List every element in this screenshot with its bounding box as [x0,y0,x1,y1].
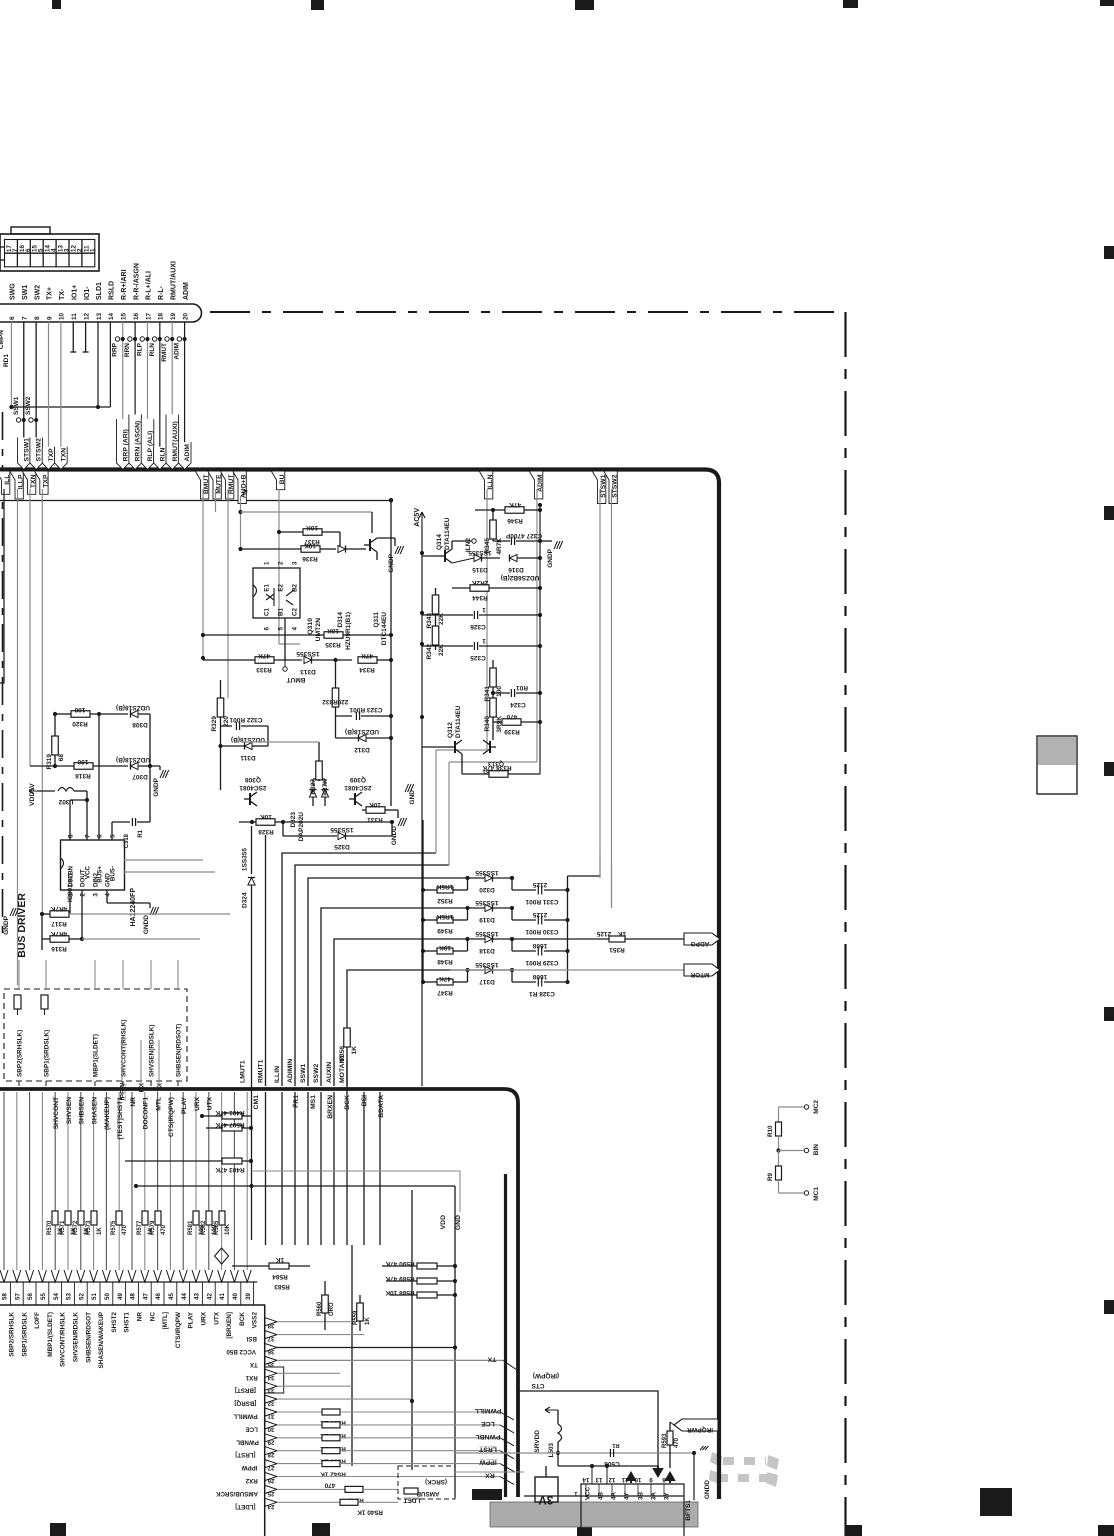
svg-text:R579: R579 [150,1220,156,1235]
svg-text:C1: C1 [264,608,271,616]
diamond on pin 41 [215,1248,229,1264]
svg-text:URX: URX [194,1096,201,1111]
svg-text:DTC144EU: DTC144EU [381,612,388,646]
svg-text:SHBSEN/RDSOT: SHBSEN/RDSOT [85,1312,92,1363]
svg-text:220: 220 [337,698,348,705]
svg-text:UTX: UTX [213,1311,220,1325]
svg-text:7: 7 [85,834,92,838]
svg-text:C326: C326 [470,623,486,630]
svg-text:49: 49 [117,1293,124,1300]
svg-text:D325: D325 [334,843,350,850]
registration mark right 3 [1104,762,1114,776]
svg-text:SWG: SWG [10,283,17,300]
svg-text:MTOR: MTOR [690,971,709,978]
svg-text:3: 3 [93,893,100,897]
MCU right pins [265,1318,277,1326]
diode D308 UDZS18(B) [131,710,139,717]
svg-text:MBP1(SLDET): MBP1(SLDET) [93,1034,100,1077]
svg-text:4B: 4B [598,1492,605,1500]
wire pin38 [277,1321,352,1323]
svg-text:30: 30 [267,1425,274,1432]
resistor R320 100 [71,711,90,718]
svg-text:R573: R573 [86,1220,92,1235]
resistor R587 47K [222,1125,242,1131]
resistor R345 4R7K vertical [490,520,497,539]
svg-text:C322 R001: C322 R001 [229,716,262,723]
svg-text:R340: R340 [484,716,491,732]
svg-text:C2: C2 [292,608,299,616]
svg-text:C324: C324 [510,701,526,708]
svg-text:470: 470 [324,1481,335,1488]
svg-text:10K: 10K [327,627,339,634]
svg-text:4: 4 [105,893,112,897]
resistor R339 470 [502,719,521,726]
resistor R351 1K (2125) [512,938,609,940]
svg-text:CTS: CTS [531,1382,545,1389]
resistor R334 47K [358,657,377,664]
svg-text:32: 32 [267,1400,274,1407]
svg-text:R585: R585 [214,1220,220,1235]
svg-text:R346: R346 [507,517,523,524]
svg-text:31: 31 [267,1413,274,1420]
svg-text:MC2: MC2 [813,1100,820,1114]
svg-text:27: 27 [267,1464,274,1471]
pins 7,8 wires with SSW taps [23,322,25,467]
wire STSW1 down [599,489,601,853]
svg-text:TX: TX [487,1355,496,1362]
resistor R542 1K [277,1463,322,1465]
cap C323 R001 [336,715,353,717]
svg-text:51: 51 [91,1293,98,1300]
resistor R318 100 [74,763,93,770]
svg-text:R583: R583 [274,1283,290,1290]
diode D324 1SS355 vertical [251,826,253,874]
svg-text:BIN: BIN [813,1144,820,1156]
inductor L503 [558,1424,562,1442]
diode D314 HZU9R1(B1) [338,545,346,552]
svg-text:E2: E2 [278,583,285,591]
svg-text:R348: R348 [437,958,453,965]
svg-text:D320: D320 [479,886,495,893]
svg-text:RLN: RLN [159,447,166,461]
svg-text:HA12240FP: HA12240FP [130,888,137,927]
svg-text:TX+: TX+ [47,287,54,300]
svg-text:VCC2 B50: VCC2 B50 [226,1348,256,1355]
svg-text:R403 47K: R403 47K [215,1166,245,1173]
grey dashed rotation arrow [723,1457,766,1465]
resistor R593 470 vertical [667,1431,673,1445]
registration mark right 2 [1104,506,1114,520]
svg-text:28: 28 [267,1451,274,1458]
resistor R336 10K [301,546,320,553]
svg-text:D311: D311 [240,754,256,761]
svg-text:RMUT: RMUT [161,343,168,362]
flag ADPG [625,938,684,940]
svg-text:R-R-/ASGN: R-R-/ASGN [133,263,140,300]
svg-text:45: 45 [168,1293,175,1300]
cap C326 [473,611,475,619]
svg-text:ILLN: ILLN [487,474,494,489]
svg-text:[LRST]: [LRST] [235,1451,255,1458]
svg-text:NC: NC [149,1312,156,1322]
svg-text:GNDP: GNDP [547,548,554,567]
hybrid transistor block Q310 [253,568,300,618]
svg-text:SBP2(SRHSLK): SBP2(SRHSLK) [17,1030,24,1077]
svg-text:SHVCONT: SHVCONT [53,1097,60,1129]
resistor R356 1K vertical [344,1028,351,1047]
svg-text:13: 13 [595,1476,602,1483]
svg-text:C̅MPN: C̅MPN [0,330,5,349]
svg-text:MC1: MC1 [813,1187,820,1201]
svg-text:DTA114EU: DTA114EU [444,517,451,550]
mid signal verticals to MCU [265,1092,267,1245]
cap C327 4700P [510,537,512,545]
svg-text:RX1: RX1 [245,1374,258,1381]
svg-text:37: 37 [267,1335,274,1342]
svg-text:R584: R584 [272,1273,288,1280]
svg-text:ADIM: ADIM [537,474,544,492]
svg-text:D313: D313 [300,668,316,675]
ILN2 terminal [472,539,476,543]
wire right x391 Q311 to rows [390,523,392,658]
wires above option box [18,960,20,989]
svg-text:TXN: TXN [60,448,67,462]
svg-text:47: 47 [142,1293,149,1300]
cap C322 R001 [221,725,233,727]
svg-text:D323: D323 [290,812,297,828]
svg-text:AMSUB/SRCK: AMSUB/SRCK [216,1490,258,1497]
dashed box AMSUB SRCK [398,1466,455,1499]
svg-text:SLD1: SLD1 [96,282,103,300]
svg-text:1: 1 [482,637,486,644]
svg-text:6: 6 [264,626,271,630]
svg-text:RMUT1: RMUT1 [257,1059,264,1083]
svg-text:SBP1/SRDSLK: SBP1/SRDSLK [21,1312,28,1357]
wire BU down [278,489,280,644]
svg-text:11: 11 [71,313,78,320]
svg-text:ILLIN: ILLIN [274,1066,281,1083]
wire AUD+B down [240,496,242,549]
svg-text:[TEST]SHST1: [TEST]SHST1 [117,1097,124,1140]
ladder row R352 D320 [421,888,425,892]
resistor R555 1K [277,1424,322,1426]
svg-text:8: 8 [662,1476,666,1483]
svg-text:C327 4700P: C327 4700P [505,532,542,539]
registration mark bottom 1 [50,1523,66,1536]
ground GNDP near Q311 [377,537,395,539]
svg-text:R339: R339 [504,728,520,735]
svg-text:ADIMIN: ADIMIN [287,1059,294,1083]
svg-text:18: 18 [158,312,165,320]
IC301 pin4 to GND [106,890,108,903]
wires into logic IC [591,1466,593,1484]
arrow up pin11 [627,1473,635,1483]
registration mark top 4 [843,0,858,8]
resistor R340 3R9K vertical [490,698,497,717]
svg-text:RLP (ALI): RLP (ALI) [147,431,154,462]
black patch bottom right [980,1488,1012,1516]
resistor R581 100 [193,1211,199,1225]
svg-text:STSW1: STSW1 [600,474,607,498]
svg-text:RRN (ASGN): RRN (ASGN) [135,421,142,462]
svg-text:UDZS18(B): UDZS18(B) [116,704,150,711]
wire row y1453 with C508 [455,1452,694,1454]
svg-text:24: 24 [267,1503,274,1510]
pins 15-20 wires with taps [122,322,124,467]
svg-text:R349: R349 [437,927,453,934]
svg-text:ORO: ORO [329,1302,335,1316]
svg-text:12: 12 [83,312,90,320]
terminal MC1 [804,1191,808,1195]
svg-text:ADPG: ADPG [691,940,710,947]
resistor R329 220 vertical [217,698,224,717]
transistor Q312 DTA114EU [454,741,456,753]
svg-text:R401 47K: R401 47K [215,1109,245,1116]
connector pin grid [5,240,95,267]
svg-text:PWMILL: PWMILL [475,1407,502,1414]
svg-text:R570: R570 [47,1220,53,1235]
resistor R317 4R7K [69,890,71,914]
diode D313 1SS355 [274,659,302,661]
svg-text:RMUT/AUXI: RMUT/AUXI [170,261,177,300]
svg-text:IO1+: IO1+ [71,285,78,300]
svg-text:TX: TX [249,1361,258,1368]
svg-text:IO1-: IO1- [84,286,91,300]
svg-text:AUXIN: AUXIN [326,1062,333,1083]
terminal MC2 [804,1105,808,1109]
svg-text:MUTE: MUTE [216,474,223,494]
resistor R328 10K [256,819,275,826]
svg-text:R336: R336 [302,555,318,562]
svg-text:UDZS6B2(B): UDZS6B2(B) [501,574,540,581]
svg-text:RX: RX [139,1083,146,1093]
svg-text:9: 9 [46,316,53,320]
ground GNDP at D307 [159,766,161,770]
svg-text:4R7K: 4R7K [50,905,67,912]
svg-text:R320: R320 [72,720,88,727]
resistor R559 1K vertical [357,1303,364,1321]
svg-text:PWNBL: PWNBL [236,1438,259,1445]
svg-text:LOFF: LOFF [34,1312,41,1329]
svg-text:10K: 10K [306,524,318,531]
resistor R344 2R2K [470,585,489,592]
svg-text:C328 R1: C328 R1 [529,990,555,997]
svg-text:SSW2: SSW2 [25,396,32,415]
svg-text:VDD5V: VDD5V [29,783,36,806]
svg-text:1SS355: 1SS355 [475,869,499,876]
svg-text:NR: NR [130,1097,137,1107]
svg-text:RMUT: RMUT [228,474,235,494]
svg-text:BU: BU [279,474,286,484]
svg-text:IPPW: IPPW [242,1464,258,1471]
svg-text:R-L+/ALI: R-L+/ALI [146,271,153,300]
svg-text:50: 50 [104,1293,111,1300]
wire x251 down [251,1086,253,1240]
ladder row R349 D319 [421,918,425,922]
svg-text:R9: R9 [767,1172,774,1181]
resistor R337 10K [303,529,322,536]
svg-text:SRVDD: SRVDD [534,1430,541,1453]
svg-text:6: 6 [9,316,16,320]
svg-text:D308: D308 [132,721,148,728]
svg-text:SBP2/SRHSLK: SBP2/SRHSLK [9,1312,16,1357]
diode D316 UDZS6B2(B) [510,554,518,561]
resistor R333 47K [255,657,274,664]
svg-text:BSI: BSI [246,1335,257,1342]
svg-text:(MAKEUP): (MAKEUP) [104,1097,111,1130]
svg-text:14: 14 [582,1476,589,1483]
svg-text:26: 26 [267,1477,274,1484]
SRVDD arrow [545,1407,558,1413]
svg-text:1SS355: 1SS355 [296,650,320,657]
ladder cap spine x567.5 [567,876,569,983]
svg-text:LMUT1: LMUT1 [239,1060,246,1083]
svg-text:BFTS1: BFTS1 [685,1500,692,1521]
svg-text:R575: R575 [111,1220,117,1235]
svg-text:1K: 1K [365,1317,371,1325]
microcontroller body [0,1281,257,1283]
svg-text:R587 47K: R587 47K [215,1121,245,1128]
svg-text:C323 R001: C323 R001 [349,706,382,713]
svg-text:AC5V: AC5V [414,508,421,527]
svg-text:STSW2: STSW2 [36,438,43,462]
wire pin24 + R540 1K [277,1501,340,1503]
svg-text:52: 52 [78,1293,85,1300]
svg-text:SHBSEN: SHBSEN [79,1097,86,1125]
resistor R579 470 [155,1211,161,1225]
svg-text:RRN: RRN [124,343,131,357]
arrow up pin8 [666,1473,674,1483]
svg-text:SSW2: SSW2 [313,1064,320,1083]
MCU top pin wires [246,1092,248,1270]
svg-text:C330 R001: C330 R001 [525,928,558,935]
svg-text:R-R+/ARI: R-R+/ARI [121,269,128,300]
registration mark right 5 [1104,1300,1114,1314]
registration mark top 5 [1100,0,1114,6]
svg-text:39: 39 [245,1293,252,1300]
svg-text:47K: 47K [439,975,451,982]
svg-text:RRP: RRP [112,342,119,356]
svg-text:R347: R347 [437,989,453,996]
svg-text:STSW1: STSW1 [23,438,30,462]
svg-text:12: 12 [608,1476,615,1483]
arrow down pin9 [654,1466,662,1476]
svg-text:SHASEN/WAKEUP: SHASEN/WAKEUP [98,1311,105,1368]
svg-text:R540 1K: R540 1K [357,1508,383,1515]
svg-text:2SC4081: 2SC4081 [344,784,371,791]
svg-text:D312: D312 [354,746,370,753]
diode D315 1SS355 [474,554,482,561]
svg-text:1K: 1K [276,1256,285,1263]
pins 11,12 stubs [72,322,74,352]
svg-text:ADIM: ADIM [184,444,191,462]
wire pin25 + R541 470 [277,1488,345,1490]
svg-text:9: 9 [649,1476,653,1483]
svg-text:R351: R351 [609,946,625,953]
svg-text:1SS355: 1SS355 [242,848,249,872]
svg-text:D319: D319 [479,916,495,923]
svg-text:PWMILL: PWMILL [233,1413,258,1420]
main bus line lower (thick) [0,1089,518,1497]
svg-text:1SS355: 1SS355 [330,826,354,833]
svg-text:RX: RX [485,1472,495,1479]
svg-text:7: 7 [22,316,29,320]
svg-text:UMT2N: UMT2N [315,618,322,642]
svg-text:C318: C318 [124,833,130,848]
svg-text:RLN: RLN [149,343,156,357]
BMUT tap [283,667,287,671]
svg-text:R328: R328 [258,828,274,835]
section chain line horizontal [210,311,845,313]
svg-text:Q314: Q314 [436,534,443,550]
resistor R9 [778,1151,780,1167]
transistor Q309 2SC4081 [354,793,356,805]
svg-text:URX: URX [201,1311,208,1325]
wires from IC301 right [124,859,203,861]
ground GNDP right [540,540,552,542]
svg-text:HZU9R1(B1): HZU9R1(B1) [345,612,352,650]
svg-text:ILLP: ILLP [18,474,25,489]
svg-text:10K: 10K [439,944,451,951]
3V regulator box [535,1477,558,1502]
wire node row y500 [0,500,391,502]
svg-text:VCC: VCC [585,1486,592,1500]
wire pin37 [277,1334,364,1336]
resistor R570 1K [52,1211,58,1225]
AUD+B arrow [241,490,247,496]
svg-text:10K: 10K [304,542,316,549]
svg-text:42: 42 [206,1293,213,1300]
svg-text:BUS DRIVER: BUS DRIVER [16,893,28,958]
inductor L302 [58,788,74,792]
svg-text:DTA114EU: DTA114EU [455,705,462,738]
svg-text:F̅R1: F̅R1 [292,1095,300,1108]
wire rows y1171 y1186 [252,1170,461,1172]
svg-text:[BRST]: [BRST] [235,1387,256,1394]
svg-text:D324: D324 [242,892,249,908]
svg-text:R572: R572 [73,1220,79,1235]
svg-text:1608: 1608 [532,942,547,949]
cap C325 [473,642,475,650]
svg-text:RRP (ARI): RRP (ARI) [122,429,129,461]
signal labels above bus [18,438,31,470]
svg-text:BDATA: BDATA [378,1095,385,1118]
svg-text:GNDD: GNDD [704,1480,711,1499]
svg-text:2R2K: 2R2K [471,579,488,586]
wire TXP down [41,489,43,914]
svg-text:16: 16 [133,312,140,320]
svg-text:19: 19 [170,312,177,320]
transistor Q313 2SC4081 [489,741,491,753]
wire pin32 [277,1398,412,1400]
IC301 body [61,840,125,890]
svg-text:R1: R1 [138,829,144,837]
svg-text:L̲R̲S̲T̲: L̲R̲S̲T̲ [478,1446,497,1453]
svg-text:34: 34 [267,1374,274,1381]
transistor Q308 2SC4081 [249,793,251,805]
wire BMUT down [202,489,204,660]
svg-text:L503: L503 [548,1443,555,1458]
svg-text:38: 38 [267,1322,274,1329]
svg-text:RSLD: RSLD [109,281,116,300]
svg-text:UTX: UTX [207,1096,214,1110]
svg-text:TX: TX [157,1083,164,1092]
VDD5V arrow [29,788,37,794]
wire row y742 [241,741,319,743]
svg-text:STSW2: STSW2 [612,474,619,498]
svg-text:B1: B1 [278,608,285,616]
svg-text:R335: R335 [325,641,341,648]
